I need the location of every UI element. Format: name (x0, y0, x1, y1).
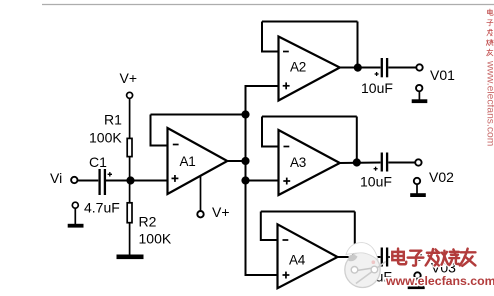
wire A4 feedback right drop (354, 212, 356, 258)
ground V02 (410, 193, 426, 197)
wire A4 output (338, 256, 381, 258)
svg-text:A3: A3 (290, 155, 306, 170)
watermark text chinese 电子发烧友 (white halo pass) (392, 249, 475, 266)
watermark right edge vertical chinese 电子发烧友 (486, 9, 493, 56)
wire V+ to R1 (129, 98, 131, 138)
wire R1 to node A (129, 157, 131, 181)
svg-text:www.elecfans.com: www.elecfans.com (485, 60, 494, 146)
node A junction dot (126, 176, 134, 184)
svg-text:R1: R1 (104, 112, 122, 128)
svg-text:4.7uF: 4.7uF (84, 200, 120, 216)
wire A3 feedback left drop (262, 117, 279, 147)
svg-text:100K: 100K (139, 231, 172, 247)
wire node A to A1 + input (131, 180, 168, 182)
ground under input terminal (68, 224, 84, 228)
C1 polarity plus (108, 172, 112, 176)
wire C3 to V02 (388, 162, 415, 164)
wire bus to A4 + input (246, 274, 278, 275)
op-amp A4 (278, 224, 338, 288)
svg-text:V01: V01 (430, 67, 455, 83)
op-amp A3 (279, 130, 340, 195)
terminal input return (72, 202, 78, 208)
svg-text:10uF: 10uF (360, 174, 392, 190)
node A3 output (353, 158, 361, 166)
op-amp A1 (168, 128, 228, 194)
wire bus to A3 + input (246, 180, 279, 182)
svg-text:www.elecfans.com: www.elecfans.com (385, 274, 494, 288)
svg-text:A4: A4 (289, 253, 306, 268)
wire A3 output (340, 162, 381, 165)
op-amp A2 (279, 37, 340, 101)
capacitor C3 10uF (382, 153, 387, 172)
wire R2 to ground (129, 223, 131, 255)
wire C4 to V03 (388, 256, 415, 258)
wire A2 feedback top (262, 21, 358, 23)
wire terminal to ground (74, 208, 76, 224)
resistor R1 (127, 138, 132, 156)
wire A1 feedback left drop (151, 115, 168, 146)
ground V01 (412, 99, 428, 103)
terminal gnd V03 (414, 272, 420, 278)
wire A2 feedback right drop (357, 22, 359, 68)
wire A4 feedback left drop (261, 212, 278, 241)
wire bus to A2 + input (246, 86, 279, 87)
ground under R2 (117, 255, 144, 260)
svg-text:V+: V+ (212, 204, 230, 220)
wire gnd V01 (418, 91, 420, 99)
resistor R2 (127, 203, 132, 223)
watermark text chinese 电子发烧友 (red pass) (392, 249, 475, 266)
wire A1 V+ pin (200, 176, 202, 211)
node A2 output (354, 64, 362, 72)
wire gnd V03 (417, 279, 419, 286)
terminal gnd V02 (414, 178, 420, 184)
node bus to A3 input (241, 176, 249, 184)
C4 polarity plus (374, 262, 378, 266)
terminal V02 (415, 159, 421, 165)
wire A2 feedback left drop (262, 22, 279, 52)
svg-text:C1: C1 (89, 154, 107, 170)
terminal V03 (415, 254, 421, 260)
C3 polarity plus (374, 167, 378, 171)
wire Vi to C1 (78, 180, 99, 182)
wire A3 feedback top (262, 116, 357, 118)
C2 polarity plus (375, 72, 379, 76)
svg-text:A2: A2 (290, 60, 306, 75)
watermark logo disc (345, 243, 386, 288)
top border rule (42, 4, 494, 6)
wire C1 to node A (106, 180, 130, 182)
wire A4 feedback top (261, 211, 355, 213)
wire A1 feedback top (151, 114, 246, 116)
wire output bus vertical (245, 86, 247, 275)
terminal V01 (416, 64, 422, 70)
svg-text:Vi: Vi (50, 170, 62, 186)
terminal V+ at A1 (197, 211, 203, 217)
wire C2 to V01 (388, 67, 416, 69)
wire A2 output (340, 67, 381, 69)
svg-text:V02: V02 (429, 169, 454, 185)
capacitor C4 10uF (382, 248, 387, 267)
node A1 feedback on bus (241, 110, 249, 118)
svg-text:V+: V+ (120, 70, 138, 86)
terminal V+ top (127, 92, 133, 98)
capacitor C1 (100, 169, 105, 195)
wire A1 output (227, 160, 245, 162)
terminal gnd V01 (416, 85, 422, 91)
svg-text:R2: R2 (139, 214, 157, 230)
terminal Vi (71, 177, 77, 183)
svg-text:A1: A1 (180, 154, 196, 169)
svg-text:100K: 100K (89, 130, 122, 146)
ground V03 (408, 285, 425, 289)
svg-text:10uF: 10uF (361, 80, 393, 96)
capacitor C2 10uF (382, 58, 387, 77)
wire node A to R2 (129, 181, 131, 203)
node A4 output (351, 253, 359, 261)
node A1 output on bus (241, 157, 249, 165)
wire A3 feedback right drop (356, 117, 358, 163)
wire gnd V02 (416, 184, 418, 194)
